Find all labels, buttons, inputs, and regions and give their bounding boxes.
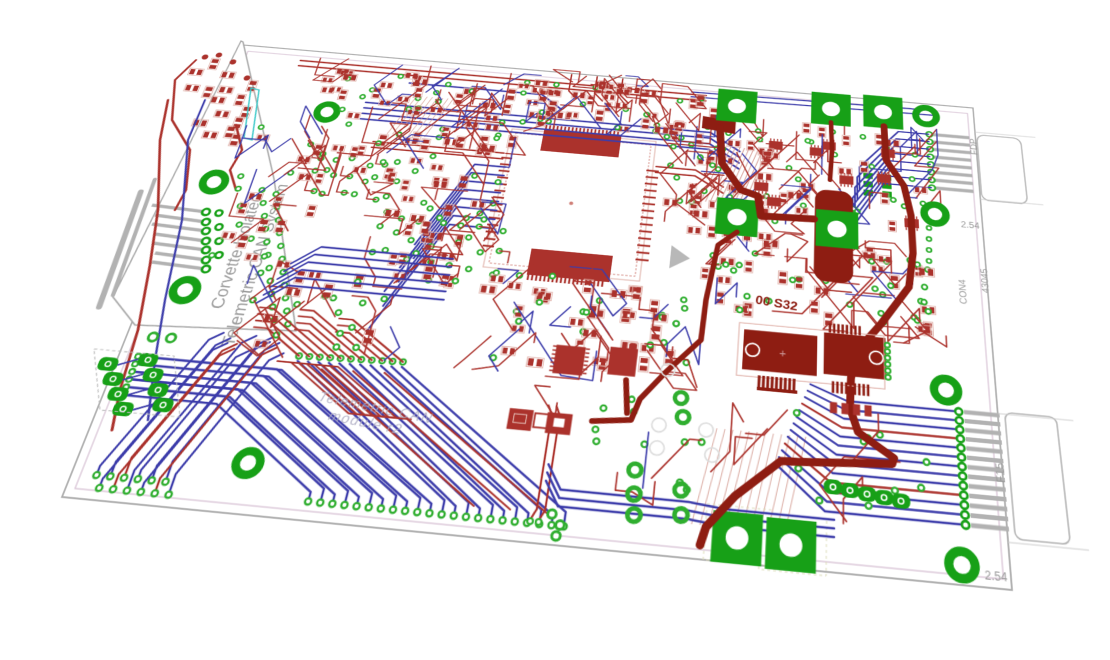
pin header comb H2 (dark red) (832, 381, 835, 393)
IC U1 top pin band (540, 129, 621, 157)
vertical red stubs from top edge (568, 75, 581, 99)
filter outline (70, 348, 201, 417)
green oval pad row (bottom right) (824, 479, 843, 495)
mounting pad square S2 (811, 92, 851, 127)
IC U1 center mark (569, 201, 574, 205)
svg-text:43045: 43045 (978, 268, 991, 294)
isolated DC-DC cluster (red footprints) (189, 69, 196, 75)
mounting pad square S6 (710, 510, 763, 566)
component cluster bottom-center (517, 384, 745, 513)
red layer continuation bundle (246, 327, 306, 356)
card edge fingers F15 (gray) (964, 412, 1000, 415)
FDP fan-out (blue) (859, 128, 932, 195)
component cluster top-left (276, 56, 541, 207)
bus traces across top (blue) (361, 102, 741, 151)
via ring cluster (628, 463, 642, 477)
via column right edge (927, 226, 932, 231)
IC U1 QFP body (483, 129, 656, 281)
red diagonal bundle (parallel to main) (264, 361, 375, 415)
red trace loop (CAN section) (121, 59, 237, 210)
component cluster right-band (697, 226, 947, 347)
teal dimension rectangle (232, 88, 271, 140)
top edge blue pair right (692, 90, 935, 113)
svg-text:FDP: FDP (967, 138, 980, 155)
connector pin pads second column (215, 210, 224, 216)
mounting hole ring (connector top) (200, 172, 229, 192)
hatch patch left of QFP top (387, 94, 453, 139)
power stub from S2 (830, 122, 832, 180)
CON4 pad group (863, 172, 872, 179)
signal bundle left group (to bottom-left vias) (97, 326, 224, 482)
component cluster top-right-inner (640, 83, 765, 230)
small ring pair (147, 332, 159, 341)
component cluster top-mid (518, 68, 673, 144)
IC U1 bottom pin band (527, 248, 613, 282)
via field below QFP (416, 219, 422, 224)
blue trace (section) (76, 100, 265, 420)
small outlined red square (533, 413, 551, 428)
unplated holes (651, 417, 667, 432)
component cluster left-mid (224, 258, 418, 369)
pin header comb H1 (dark red) (757, 375, 761, 388)
svg-text:CON4: CON4 (957, 278, 970, 304)
FDP tab outline (977, 135, 1028, 204)
dimension lines (off-board) (980, 199, 1043, 205)
transformer pads (201, 54, 209, 59)
electrolytic capacitor C1 (dark red) (742, 329, 817, 376)
IC U2 (QFN, red) (552, 345, 586, 376)
svg-text:+: + (779, 346, 787, 360)
component cluster right-mid (732, 112, 944, 246)
PCB layout scene (perspective view) (62, 45, 1012, 590)
gray arrow marker (669, 245, 691, 270)
component cluster center-below (454, 258, 706, 390)
mounting hole ring (upper left of board) (315, 103, 340, 121)
voltage regulator footprint (red block B) (545, 412, 573, 435)
pads right of C2 (885, 343, 890, 348)
parts row below arrow (688, 227, 693, 233)
keepout boxes bottom squares (703, 504, 772, 567)
voltage regulator footprint (red block A) (506, 408, 534, 431)
comb H4 (829, 323, 832, 332)
mounting pad square S1 (716, 89, 758, 124)
connector X1 pins (151, 205, 207, 212)
power trace elbow from S1 (713, 128, 815, 221)
red trace pair to bottom (530, 405, 553, 519)
mounting pad square S5 (815, 209, 858, 250)
red diagonals inside main bundle (288, 369, 497, 506)
card edge fingers FDP (gray) (933, 135, 969, 138)
electrolytic capacitor C2 (dark red) (824, 332, 887, 379)
IC U3 (QFN, red) (607, 347, 638, 377)
board outline (main PCB) (62, 45, 1012, 590)
CAN connector section outline (103, 39, 382, 340)
SMD cap row H3 (830, 402, 837, 414)
F15 tab outline (1005, 412, 1071, 544)
small ring trio bottom-center (547, 509, 557, 518)
blue loops around bottom squares (544, 464, 834, 520)
connector X1 (D-sub flange) (92, 192, 148, 307)
mounting hole ring R9 (948, 550, 976, 580)
power stub QFN2 (622, 380, 631, 413)
component cluster mid-gap (345, 183, 508, 297)
tantalum capacitor C9 (dark red barrel) (814, 189, 854, 284)
component cluster bottom-right (731, 401, 933, 532)
bus traces across top (red pair) (373, 142, 504, 154)
horizontal blue rows left of QFP (291, 245, 453, 278)
mounting pad square S3 (863, 95, 903, 130)
component cluster left-edge-strip (196, 124, 348, 270)
silkscreen inner frame (75, 51, 1003, 579)
layer-change via row (mid) (295, 353, 302, 359)
mounting hole ring (bottom left area) (232, 450, 263, 476)
mounting pad square S7 (765, 517, 817, 574)
IC U1 left pins (501, 156, 512, 160)
mounting pad square S4 (715, 197, 760, 237)
power trace (thick dark red, right side) (700, 113, 925, 567)
via field left of QFP (318, 156, 324, 161)
upper-left blue stub (406, 83, 564, 110)
svg-text:2.54: 2.54 (961, 220, 981, 231)
power pad (dark red) left of S1 (702, 116, 736, 134)
bundle from QFP left side (steep) (429, 162, 505, 228)
red supply trace (section left) (28, 100, 238, 430)
upper-left red bus pair (300, 60, 706, 95)
svg-text:F15: F15 (992, 462, 1007, 484)
mounting hole ring R7 (924, 204, 947, 225)
capacitor outline box (736, 323, 885, 389)
mounting hole ring R8 (933, 378, 958, 403)
left edge via columns (259, 188, 266, 193)
F15 pad rings and fan-out (810, 384, 959, 411)
svg-text:2.54: 2.54 (984, 569, 1008, 585)
hatch patch right of S1 (701, 145, 768, 207)
hatch region left of S6 (691, 427, 805, 536)
signal bundle diagonals (bottom copper) (90, 395, 332, 502)
power trace from S4 down (592, 221, 737, 433)
mounting hole ring R6 (915, 107, 936, 125)
IC U1 right pins (646, 170, 658, 171)
filter pads block (96, 357, 120, 372)
mounting hole ring (connector bottom) (170, 279, 201, 302)
